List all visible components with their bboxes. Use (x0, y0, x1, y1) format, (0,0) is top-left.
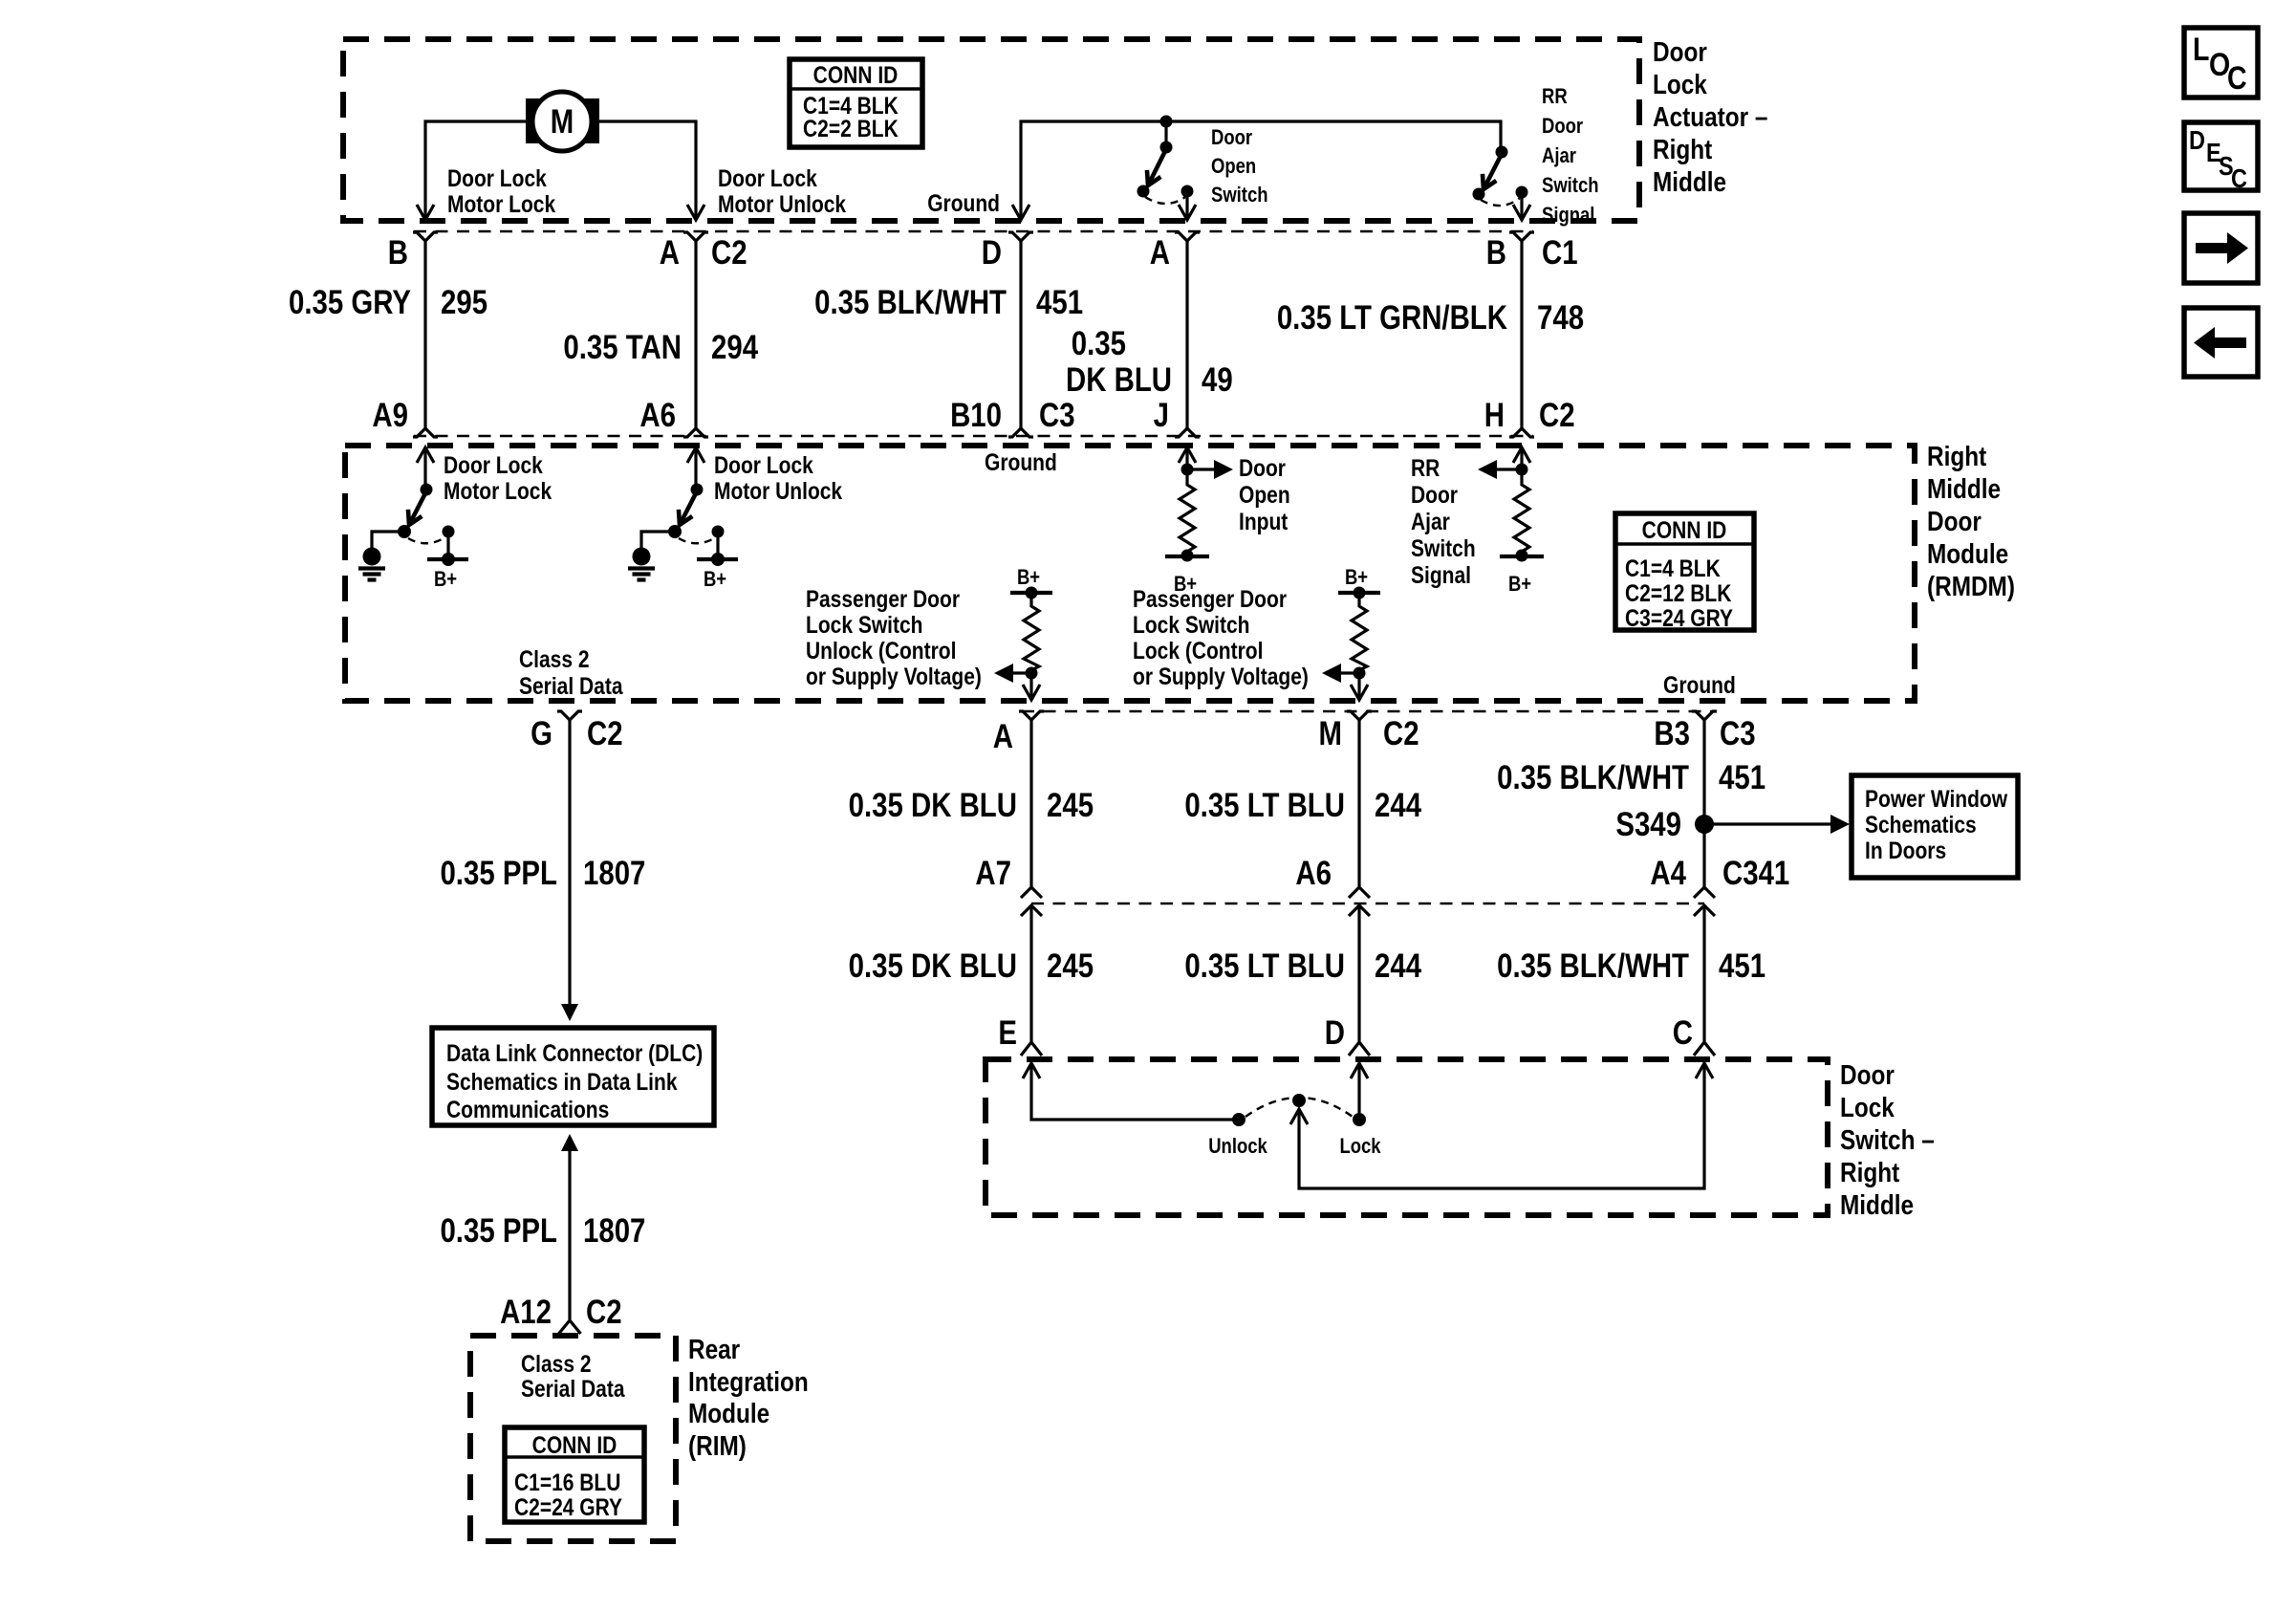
svg-text:M: M (551, 103, 574, 141)
resistor R1: door open input pull-up (1180, 481, 1195, 552)
pin labels row 2 (372, 397, 1574, 434)
wire: A4 to C (0.35 BLK/WHT 451) (1702, 905, 1705, 1041)
svg-text:Ajar: Ajar (1411, 508, 1450, 534)
pin labels A12 C2 (500, 1294, 622, 1331)
arrow up into DLC from RIM wire (561, 1134, 578, 1151)
wire: G to DLC (0.35 PPL 1807) (568, 729, 571, 1006)
svg-text:Passenger Door: Passenger Door (806, 585, 960, 612)
label: Door Open Input (1239, 454, 1290, 534)
svg-text:B: B (1486, 234, 1506, 272)
svg-text:C2=24 GRY: C2=24 GRY (514, 1493, 623, 1520)
button arrow right (2184, 213, 2258, 283)
svg-text:B+: B+ (704, 569, 726, 592)
arrow into connector at A (door open) (1179, 205, 1196, 220)
wire: S349 to power window schematics (1704, 822, 1830, 825)
svg-text:C1=16 BLU: C1=16 BLU (514, 1469, 620, 1495)
module box: Door Lock Actuator - Right Middle (dashed) (343, 39, 1639, 221)
svg-text:Ground: Ground (927, 189, 1000, 216)
switch S4 B+ contact (697, 526, 738, 567)
svg-text:Actuator –: Actuator – (1653, 101, 1768, 132)
svg-text:Signal: Signal (1411, 561, 1471, 588)
svg-text:Input: Input (1239, 508, 1289, 534)
svg-text:Lock: Lock (1840, 1092, 1895, 1122)
svg-text:0.35 GRY: 0.35 GRY (289, 284, 411, 321)
arrow: lock control pointer (left) (1322, 664, 1359, 683)
svg-text:C3=24 GRY: C3=24 GRY (1625, 604, 1734, 631)
svg-text:CONN ID: CONN ID (1642, 516, 1727, 543)
svg-text:Middle: Middle (1653, 166, 1726, 197)
arrow into RMDM bottom connector at M (1351, 685, 1368, 700)
svg-text:0.35 PPL: 0.35 PPL (440, 855, 557, 892)
svg-text:Ground: Ground (985, 448, 1057, 475)
resistor R2: RR door ajar pull-up (1514, 481, 1529, 552)
wire: H pin down to RR ajar input node (1520, 447, 1523, 481)
label: 0.35 TAN 294 (563, 329, 758, 366)
node: R2 bottom to B+ (1516, 550, 1528, 562)
wire: E to unlock contact (1031, 1063, 1239, 1120)
node: R1 bottom to B+ (1181, 550, 1194, 562)
arrow into DLC box (561, 1004, 578, 1021)
switch S5 lever arrowhead (1290, 1109, 1308, 1124)
svg-text:748: 748 (1537, 299, 1584, 337)
svg-text:or Supply Voltage): or Supply Voltage) (1133, 663, 1309, 689)
label: Passenger Door Lock Switch Lock (Control or Supply Voltage) (1133, 585, 1309, 689)
svg-text:C: C (2231, 164, 2247, 193)
svg-text:0.35 BLK/WHT: 0.35 BLK/WHT (1497, 947, 1689, 985)
svg-text:C: C (1673, 1014, 1693, 1052)
svg-text:Lock (Control: Lock (Control (1133, 637, 1263, 664)
svg-text:Door: Door (1840, 1059, 1895, 1090)
svg-text:Door: Door (1927, 506, 1982, 536)
svg-text:E: E (998, 1014, 1017, 1052)
B+ source branch above pin A (1010, 567, 1052, 602)
pin labels row E D C (998, 1014, 1693, 1052)
svg-text:Door Lock: Door Lock (714, 451, 813, 478)
connector pin A C2 (female) (683, 232, 708, 251)
wire: R3 to pin A with arrow (1029, 673, 1032, 699)
label: 0.35 PPL 1807 (lower) (440, 1212, 645, 1250)
node: RR ajar input junction (1516, 464, 1528, 476)
pin labels RMDM bottom (531, 715, 1755, 755)
label: 0.35 LT BLU 244 (upper) (1184, 787, 1421, 824)
svg-text:A7: A7 (975, 855, 1011, 892)
svg-text:B+: B+ (1508, 574, 1531, 597)
svg-text:49: 49 (1202, 361, 1233, 399)
switch S4 common contact (668, 525, 682, 538)
svg-text:0.35 LT GRN/BLK: 0.35 LT GRN/BLK (1277, 299, 1508, 337)
label: Door Lock Motor Unlock (actuator) (718, 164, 846, 217)
arrow into connector at B (RR ajar) (1513, 205, 1530, 220)
label: Rear Integration Module (RIM) title (688, 1334, 809, 1461)
arrow up inside RMDM at J (1179, 447, 1196, 463)
svg-text:Lock Switch: Lock Switch (806, 611, 922, 638)
svg-text:Right: Right (1653, 134, 1712, 164)
svg-text:Signal: Signal (1542, 205, 1594, 228)
connector pin B (female) (413, 232, 438, 251)
label: Door Lock Motor Lock (RMDM) (444, 451, 552, 504)
arrow up inside switch box at D (1351, 1063, 1368, 1078)
svg-text:Door Lock: Door Lock (447, 164, 547, 191)
switch S2: RR Door Ajar pivot (1496, 146, 1508, 159)
label: Door Lock Actuator - Right Middle title (1653, 36, 1768, 197)
wire B to H (0.35 LT GRN/BLK 748) (1520, 251, 1523, 428)
label: Class 2 Serial Data (RIM) (521, 1350, 625, 1402)
switch S1 contact (left) (1137, 185, 1150, 198)
svg-text:or Supply Voltage): or Supply Voltage) (806, 663, 982, 689)
wire: A6 pin down to unlock switch pivot (694, 447, 697, 488)
B+ rail under R1 (1165, 555, 1209, 558)
label: RR Door Ajar Switch Signal (RMDM) (1411, 454, 1476, 588)
button arrow left (2184, 308, 2258, 377)
svg-text:Switch: Switch (1542, 175, 1599, 198)
B+ rail under R2 (1500, 555, 1544, 558)
wire A to A6 (0.35 TAN 294) (694, 251, 697, 428)
svg-text:M: M (1319, 715, 1342, 752)
arrow into connector at A (687, 205, 704, 220)
connector pin E (chevron) (1021, 1042, 1042, 1056)
junction on ground rail for door open switch (1160, 116, 1173, 128)
wire: motor lock side to pin B (425, 121, 532, 219)
svg-text:C2: C2 (1383, 715, 1419, 752)
svg-text:Door: Door (1653, 36, 1707, 67)
svg-text:0.35 BLK/WHT: 0.35 BLK/WHT (1497, 759, 1689, 796)
CONN ID table (actuator) (790, 59, 922, 147)
resistor R3: passenger unlock feed (1024, 602, 1039, 670)
button LOC (2184, 28, 2258, 98)
label: 0.35 GRY 295 (289, 284, 487, 321)
svg-text:Switch –: Switch – (1840, 1124, 1935, 1155)
svg-text:B3: B3 (1654, 715, 1690, 752)
svg-text:Power Window: Power Window (1865, 785, 2007, 812)
svg-text:Door: Door (1542, 116, 1583, 139)
svg-text:1807: 1807 (583, 855, 645, 892)
svg-text:Door: Door (1411, 481, 1458, 508)
switch S4: door lock motor unlock pivot (691, 484, 704, 496)
svg-text:244: 244 (1375, 947, 1421, 985)
svg-text:Class 2: Class 2 (521, 1350, 592, 1377)
arrow up inside RMDM at A9 (417, 447, 434, 463)
svg-text:244: 244 (1375, 787, 1421, 824)
connector row C341: thin dashed line (1031, 903, 1704, 904)
switch S2 contact (left) (1473, 188, 1485, 201)
svg-text:Right: Right (1840, 1157, 1899, 1187)
svg-text:C3: C3 (1039, 397, 1075, 434)
wire: motor unlock side to pin A (592, 121, 696, 219)
svg-text:Middle: Middle (1840, 1189, 1914, 1220)
svg-text:Module: Module (1927, 538, 2008, 569)
svg-text:C2: C2 (711, 234, 747, 272)
connector pin A12 C2 (chevron into RIM) (559, 1320, 581, 1334)
svg-text:451: 451 (1719, 759, 1765, 796)
node: R4 bottom (1354, 667, 1366, 680)
arrow up inside switch box at E (1023, 1063, 1040, 1078)
svg-text:Lock: Lock (1653, 69, 1707, 99)
svg-text:Right: Right (1927, 441, 1986, 471)
inline connector at A4 C341 (double chevron) (1694, 887, 1715, 916)
svg-text:A: A (1150, 234, 1170, 272)
motor M1 brush blocks (526, 98, 599, 143)
svg-text:Schematics: Schematics (1865, 811, 1977, 838)
arrow up inside switch box at C (1696, 1063, 1713, 1078)
inline connector at A6 (double chevron) (1349, 887, 1370, 916)
wire: J pin down to door open input node (1185, 447, 1188, 481)
wire: common contact to ground G2 (641, 532, 675, 550)
svg-text:RR: RR (1542, 86, 1568, 109)
CONN ID table (RMDM) (1615, 513, 1754, 631)
label: 0.35 BLK/WHT 451 (upper) (1497, 759, 1765, 796)
switch S5 lock contact (1353, 1113, 1366, 1126)
svg-text:Unlock: Unlock (1208, 1136, 1267, 1159)
arrow: unlock control pointer (left) (994, 664, 1031, 683)
wire: A7 to E (0.35 DK BLU 245) (1029, 905, 1032, 1041)
ground G2 (628, 548, 655, 580)
svg-text:Unlock (Control: Unlock (Control (806, 637, 956, 664)
B+ source branch above pin M (1338, 567, 1380, 602)
svg-text:Serial Data: Serial Data (519, 672, 623, 699)
arrow into RMDM bottom connector at A (1023, 685, 1040, 700)
svg-text:1807: 1807 (583, 1212, 645, 1250)
svg-text:Module: Module (688, 1398, 769, 1428)
svg-text:Door: Door (1211, 127, 1252, 150)
splice S349 (1695, 815, 1714, 834)
svg-text:C2: C2 (587, 715, 623, 752)
svg-text:In Doors: In Doors (1865, 837, 1946, 863)
arrow into connector at B (417, 205, 434, 220)
svg-text:A: A (993, 718, 1013, 755)
label: 0.35 BLK/WHT 451 (lower) (1497, 947, 1765, 985)
button DESC (2184, 122, 2258, 193)
svg-text:D: D (1325, 1014, 1345, 1052)
CONN ID table (RIM) (505, 1427, 644, 1522)
svg-text:B: B (388, 234, 408, 272)
box: Data Link Connector (DLC) (432, 1028, 714, 1125)
module box: Rear Integration Module RIM (dashed) (470, 1336, 676, 1541)
label: 0.35 DK BLU 49 (1066, 325, 1233, 399)
connector row C1/C2 actuator: thin dashed line (414, 230, 1533, 232)
arrow: RR ajar input pointer (left) (1478, 460, 1522, 479)
svg-text:0.35 LT BLU: 0.35 LT BLU (1184, 947, 1345, 985)
svg-text:C2=12 BLK: C2=12 BLK (1625, 579, 1732, 606)
svg-text:Switch: Switch (1211, 185, 1268, 207)
switch S3 lever (410, 491, 426, 523)
switch S1: Door Open Switch pivot (1160, 142, 1173, 154)
connector pin G C2 (female) (557, 711, 582, 729)
svg-text:295: 295 (441, 284, 487, 321)
connector pin M C2 (female) (1347, 711, 1372, 729)
svg-text:245: 245 (1047, 787, 1094, 824)
svg-text:Door Lock: Door Lock (718, 164, 817, 191)
arrow: door open input pointer (right) (1187, 460, 1233, 479)
svg-text:Schematics in Data Link: Schematics in Data Link (446, 1068, 678, 1095)
svg-text:245: 245 (1047, 947, 1094, 985)
wire: R4 to pin M with arrow (1357, 673, 1360, 699)
svg-text:Motor Unlock: Motor Unlock (718, 190, 846, 217)
switch S3 common contact (398, 525, 411, 538)
svg-text:C2: C2 (586, 1294, 622, 1331)
svg-text:Communications: Communications (446, 1096, 609, 1122)
wire: A to A7 (0.35 DK BLU 245) (1029, 729, 1032, 887)
svg-text:Lock: Lock (1339, 1136, 1381, 1159)
svg-text:(RMDM): (RMDM) (1927, 571, 2015, 601)
svg-text:0.35 DK BLU: 0.35 DK BLU (849, 787, 1017, 824)
arrow up inside RMDM at A6 (687, 447, 704, 463)
node: R3 bottom (1026, 667, 1038, 680)
label: 0.35 PPL 1807 (upper) (440, 855, 645, 892)
wire B to A9 (0.35 GRY 295) (423, 251, 426, 428)
svg-text:Ajar: Ajar (1542, 145, 1576, 168)
pin labels row A7 A6 A4 C341 (975, 855, 1789, 892)
svg-text:A6: A6 (639, 397, 676, 434)
label: Door Open Switch (1211, 127, 1268, 207)
svg-text:DK BLU: DK BLU (1066, 361, 1172, 399)
wire: common contact to ground G1 (372, 532, 404, 550)
svg-text:Ground: Ground (1663, 671, 1736, 698)
svg-text:Lock Switch: Lock Switch (1133, 611, 1249, 638)
label: Passenger Door Lock Switch Unlock (Control or Supply Voltage) (806, 585, 982, 689)
connector pin A9 (male into RMDM) (413, 428, 438, 437)
connector pin D (female) (1008, 232, 1033, 251)
box: Power Window Schematics In Doors (1852, 775, 2018, 878)
svg-text:S349: S349 (1615, 806, 1681, 843)
svg-text:Class 2: Class 2 (519, 645, 590, 672)
switch S5 center pole (1292, 1094, 1306, 1107)
connector pin C (chevron) (1694, 1042, 1715, 1056)
svg-text:Middle: Middle (1927, 473, 2001, 504)
svg-text:0.35 DK BLU: 0.35 DK BLU (849, 947, 1017, 985)
wire A to J (0.35 DK BLU 49) (1185, 251, 1188, 428)
svg-text:A9: A9 (372, 397, 408, 434)
connector pin A6 (male into RMDM) (683, 428, 708, 437)
wire: RR ajar switch to pin B (1520, 192, 1523, 219)
svg-text:C2: C2 (1539, 397, 1575, 434)
switch S3 B+ contact (427, 526, 468, 567)
arrow into connector at D (1012, 205, 1029, 220)
svg-text:Serial Data: Serial Data (521, 1375, 625, 1402)
svg-text:C2=2 BLK: C2=2 BLK (803, 115, 899, 142)
svg-text:Rear: Rear (688, 1334, 741, 1364)
wire: D to lock contact (1357, 1063, 1360, 1113)
svg-text:451: 451 (1719, 947, 1765, 985)
svg-text:B+: B+ (1345, 567, 1368, 590)
switch S5 travel arc (1245, 1098, 1353, 1117)
label: Door Lock Motor Lock (actuator) (447, 164, 555, 217)
switch S1 lever (1149, 149, 1166, 184)
connector row RMDM top: thin dashed line (414, 435, 1533, 437)
svg-text:C341: C341 (1722, 855, 1789, 892)
svg-text:0.35: 0.35 (1072, 325, 1126, 362)
connector pin A (female) (1019, 711, 1044, 729)
svg-text:Passenger Door: Passenger Door (1133, 585, 1287, 612)
wire: A6 to D (0.35 LT BLU 244) (1357, 905, 1360, 1041)
svg-text:Door: Door (1239, 454, 1286, 481)
svg-text:C1: C1 (1542, 234, 1578, 272)
wire: RIM to DLC (0.35 PPL 1807) (568, 1151, 571, 1319)
svg-text:A6: A6 (1295, 855, 1332, 892)
svg-text:Open: Open (1211, 156, 1256, 179)
arrow to power window box (1830, 815, 1850, 834)
wire: door open switch to pin A (1185, 191, 1188, 219)
connector pin J (male into RMDM) (1175, 428, 1200, 437)
svg-text:D: D (2189, 126, 2205, 155)
svg-text:G: G (531, 715, 552, 752)
switch S2 contact (right) (1516, 186, 1528, 199)
switch S3: door lock motor lock pivot (421, 484, 433, 496)
svg-text:A4: A4 (1650, 855, 1686, 892)
label: Power Window Schematics In Doors (1865, 785, 2007, 863)
svg-text:0.35 BLK/WHT: 0.35 BLK/WHT (814, 284, 1007, 321)
label: 0.35 LT GRN/BLK 748 (1277, 299, 1584, 337)
switch S4 lever (681, 491, 697, 523)
svg-text:CONN ID: CONN ID (532, 1431, 617, 1458)
switch S5 unlock contact (1232, 1113, 1245, 1126)
svg-text:Motor Lock: Motor Lock (444, 477, 552, 504)
svg-text:Open: Open (1239, 481, 1290, 508)
wire: stub to door open switch pivot (1164, 121, 1167, 145)
svg-text:C1=4 BLK: C1=4 BLK (1625, 555, 1721, 581)
label: Door Lock Motor Unlock (RMDM) (714, 451, 842, 504)
motor M1 body (532, 92, 592, 151)
svg-text:B+: B+ (434, 569, 457, 592)
wire: B3 to A4 (0.35 BLK/WHT 451) (1702, 729, 1705, 887)
svg-text:0.35 TAN: 0.35 TAN (563, 329, 682, 366)
connector row RMDM bottom: thin dashed line (1022, 710, 1716, 712)
connector pin D (chevron) (1349, 1042, 1370, 1056)
svg-text:Data Link Connector (DLC): Data Link Connector (DLC) (446, 1039, 703, 1066)
label: RR Door Ajar Switch Signal (actuator) (1542, 86, 1599, 228)
wire: ground rail in actuator (1021, 121, 1501, 219)
label: Right Middle Door Module (RMDM) title (1927, 441, 2015, 601)
module box: Right Middle Door Module RMDM (dashed) (345, 446, 1915, 701)
arrow up inside RMDM at H (1513, 447, 1530, 463)
switch S1 contact (right) (1181, 185, 1194, 198)
wire: A9 pin down to lock switch pivot (423, 447, 426, 488)
svg-text:A: A (660, 234, 680, 272)
connector pin B3 C3 (female) (1692, 711, 1717, 729)
svg-text:Motor Lock: Motor Lock (447, 190, 555, 217)
connector pin H C2 (male into RMDM) (1509, 428, 1534, 437)
label: Door Lock Switch - Right Middle title (1840, 1059, 1935, 1220)
svg-text:294: 294 (711, 329, 758, 366)
svg-text:0.35 LT BLU: 0.35 LT BLU (1184, 787, 1345, 824)
switch S4 travel arc (679, 537, 716, 543)
svg-text:L: L (2193, 32, 2209, 68)
ground G1 (358, 548, 385, 580)
svg-text:C: C (2227, 60, 2247, 97)
connector pin A C3 (female) (1175, 232, 1200, 251)
svg-text:J: J (1154, 397, 1169, 434)
label: 0.35 DK BLU 245 (upper) (849, 787, 1094, 824)
switch S2 lever (1484, 154, 1502, 187)
label: 0.35 BLK/WHT 451 (814, 284, 1083, 321)
svg-text:C3: C3 (1720, 715, 1756, 752)
pin labels row 1 (388, 234, 1578, 272)
switch S2 travel arc (1481, 198, 1520, 206)
label: DLC box text (446, 1039, 703, 1122)
connector pin B C1 (female) (1509, 232, 1534, 251)
module box: Door Lock Switch - Right Middle (dashed) (986, 1059, 1828, 1215)
switch S3 travel arc (408, 537, 445, 543)
svg-text:A12: A12 (500, 1294, 552, 1331)
svg-text:RR: RR (1411, 454, 1440, 481)
svg-text:H: H (1484, 397, 1505, 434)
svg-text:B+: B+ (1017, 567, 1040, 590)
svg-text:451: 451 (1036, 284, 1083, 321)
node: door open input junction (1181, 464, 1194, 476)
svg-text:Motor Unlock: Motor Unlock (714, 477, 842, 504)
wire: M to A6 (0.35 LT BLU 244) (1357, 729, 1360, 887)
svg-text:Door Lock: Door Lock (444, 451, 543, 478)
wire D to B10 (0.35 BLK/WHT 451) (1019, 251, 1022, 428)
